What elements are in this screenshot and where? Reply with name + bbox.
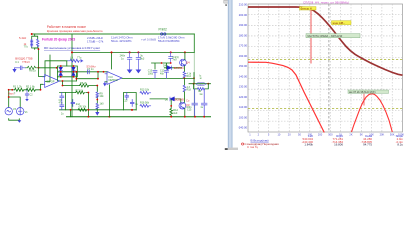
feedback loop under C7	[76, 72, 98, 81]
svg-text:775mV: 775mV	[22, 61, 30, 64]
svg-text:0R 10k: 0R 10k	[79, 106, 87, 109]
peak cursor tick red	[363, 94, 365, 106]
svg-text:180.00: 180.00	[239, 33, 248, 37]
ground arrow R10	[95, 112, 99, 116]
label box yellow 2	[332, 21, 352, 25]
svg-text:5K: 5K	[360, 132, 363, 136]
svg-text:Вых?: Вых?	[8, 92, 16, 96]
top mid bus wire	[72, 51, 194, 53]
output probe ellipse	[196, 82, 206, 85]
transistor Q3	[179, 102, 186, 109]
cap C2 to ground	[25, 90, 29, 99]
gain curve dark red	[248, 7, 403, 75]
svg-text:ЧАСТОТА СРЕЗА − 847Hz/10: ЧАСТОТА СРЕЗА − 847Hz/10	[307, 34, 343, 38]
svg-text:R7 10k: R7 10k	[76, 89, 84, 92]
svg-text:FortuВ 20 февр 2023: FortuВ 20 февр 2023	[42, 37, 75, 41]
resistor R18 vertical	[183, 78, 185, 85]
horizontal gridlines	[248, 14, 403, 16]
svg-text:BC850C: BC850C	[174, 66, 185, 70]
svg-text:20K: 20K	[380, 132, 385, 136]
svg-text:Сu: Сu	[186, 99, 190, 103]
input ground	[13, 68, 16, 72]
load loop with resistor	[194, 84, 209, 89]
resistor R13	[140, 91, 151, 107]
svg-text:Output: Output	[197, 83, 204, 86]
svg-text:100u: 100u	[148, 72, 154, 75]
Q3 emitter to bus	[184, 109, 186, 117]
svg-text:Фильтр Н: Фильтр Н	[300, 6, 311, 10]
svg-text:R18: R18	[187, 88, 192, 91]
resistor R12 vertical	[170, 100, 173, 117]
svg-text:R6 2k: R6 2k	[80, 81, 87, 85]
wire row y63	[152, 63, 171, 69]
svg-text:R#: выполнение установка в 0.8: R#: выполнение установка в 0.83 Гц вкл	[44, 46, 100, 50]
resistor R9	[96, 92, 99, 98]
IC3 ground stem to bus	[108, 85, 110, 117]
clipper to output vertical	[57, 77, 59, 81]
Q3 / D6 row	[150, 99, 181, 104]
toolbar button	[224, 0, 228, 3]
L1 R5 parallel pair	[32, 34, 39, 68]
diode grid wires	[58, 66, 78, 77]
readout columns	[302, 134, 404, 146]
node top rail left end	[31, 33, 33, 35]
svg-text:16.806: 16.806	[334, 143, 343, 147]
wire left of diode grid	[45, 61, 67, 77]
svg-text:77u: 77u	[77, 56, 82, 60]
cap C5 to ground	[127, 52, 132, 72]
ground arrow IC3 plus input	[105, 81, 107, 83]
node dot right	[56, 67, 58, 69]
inductor L1	[31, 39, 33, 47]
wire vertical to opamp plus	[39, 68, 45, 77]
diode D1	[59, 67, 63, 70]
svg-text:500: 500	[328, 132, 333, 136]
cap C11	[71, 100, 75, 107]
svg-text:120.00: 120.00	[239, 95, 248, 99]
load resistor R19	[198, 88, 205, 91]
svg-text:IC2 OP: IC2 OP	[46, 79, 55, 83]
svg-text:R8 1k: R8 1k	[29, 70, 36, 73]
svg-text:R14: R14	[187, 75, 192, 78]
svg-text:5.4Hz: 5.4Hz	[19, 36, 27, 40]
svg-text:Print2: Print2	[159, 28, 168, 32]
svg-text:8.2u: 8.2u	[397, 143, 403, 147]
svg-text:175dB − 07k: 175dB − 07k	[87, 40, 104, 44]
svg-text:170.00: 170.00	[239, 44, 248, 48]
connector symbol on top rail	[161, 33, 167, 35]
svg-text:С так Гц: С так Гц	[247, 145, 258, 149]
svg-text:140.00: 140.00	[239, 74, 248, 78]
header blue text cluster1	[87, 36, 104, 43]
R18 bottom to Q3 collector	[183, 92, 185, 103]
svg-text:160.00: 160.00	[239, 54, 248, 58]
y axis labels	[238, 3, 248, 130]
svg-text:зона 1dB−: зона 1dB−	[332, 21, 345, 25]
svg-text:BC856C: BC856C	[175, 97, 186, 101]
svg-text:R16 56k: R16 56k	[140, 102, 150, 105]
diode D4	[167, 66, 171, 70]
svg-text:7n9: 7n9	[172, 59, 177, 62]
label box green lower	[348, 90, 389, 93]
right RC sub-block of IC3	[124, 93, 137, 111]
mid vertical bus R9/R10	[96, 86, 98, 112]
resistor R10	[96, 103, 99, 109]
svg-text:R13 10k: R13 10k	[140, 89, 150, 92]
right rail	[193, 34, 195, 52]
cap C7 on wire	[88, 70, 90, 74]
svg-text:-240.00: -240.00	[238, 126, 248, 130]
cap C4 on vertical from bus	[169, 52, 173, 63]
node dot input	[38, 67, 40, 69]
left rail	[71, 34, 73, 117]
svg-text:190.00: 190.00	[239, 23, 248, 27]
svg-text:1м: 1м	[199, 93, 202, 96]
diode D2	[72, 67, 76, 70]
diode grid dots	[60, 65, 75, 78]
svg-text:ВХОД/0.775В: ВХОД/0.775В	[15, 56, 32, 60]
source network: wire	[9, 84, 43, 120]
output curve bright red left	[248, 62, 324, 132]
caps C8 column	[60, 93, 64, 110]
svg-text:40n: 40n	[160, 72, 165, 75]
plot frame	[248, 4, 403, 132]
svg-text:2K: 2K	[349, 132, 352, 136]
svg-text:77u: 77u	[24, 45, 29, 48]
opamp2 output wire	[122, 77, 194, 79]
resistor R11 on bottom wire	[78, 108, 87, 111]
wire feedback vertical	[45, 55, 50, 82]
svg-text:C13: C13	[123, 100, 128, 103]
cap C1	[14, 66, 25, 70]
cursor line red vertical	[310, 10, 312, 64]
resistor R8	[26, 66, 39, 69]
diode grid D1-D4	[59, 66, 75, 77]
diode D5	[72, 73, 76, 76]
diode D4 row	[164, 67, 181, 69]
opamp1 output wiring	[60, 81, 80, 86]
svg-text:50uA .42%/18%: 50uA .42%/18%	[111, 39, 132, 43]
diode D3	[59, 73, 63, 76]
output hump bright red	[352, 94, 393, 132]
source V3	[5, 108, 12, 115]
svg-text:50K: 50K	[390, 132, 395, 136]
svg-text:200.00: 200.00	[239, 13, 248, 17]
svg-text:Красная проверка навесная резь: Красная проверка навесная резьбовито	[47, 29, 103, 33]
svg-text:NE5532: NE5532	[109, 78, 119, 82]
svg-text:4u3: 4u3	[140, 57, 145, 60]
resistor R1	[15, 88, 27, 91]
op-amp IC2	[43, 75, 60, 88]
svg-text:110.00: 110.00	[239, 105, 248, 109]
left RC sub-block	[60, 93, 137, 117]
vertical gridlines	[257, 4, 259, 132]
svg-text:R2 1.6k: R2 1.6k	[26, 86, 35, 89]
source V1	[17, 108, 24, 115]
zero line bottom green dashed	[248, 108, 403, 110]
cap C10	[153, 70, 157, 78]
zero line top green dashed	[248, 59, 403, 61]
cap C12	[165, 70, 169, 78]
resistor R14 vertical	[183, 66, 185, 72]
label box green upper	[306, 34, 360, 38]
resistor R6	[80, 84, 98, 87]
svg-text:150.00: 150.00	[239, 64, 248, 68]
resistor R2	[26, 88, 39, 91]
svg-text:0.1: 0.1	[15, 61, 19, 64]
output node wire	[189, 83, 211, 85]
cap C6 to ground	[136, 52, 141, 72]
svg-text:200: 200	[318, 132, 323, 136]
cursor line gray dashed vertical	[328, 4, 330, 132]
scrollbar corner	[228, 148, 238, 150]
svg-text:м: м	[200, 77, 202, 80]
cap C13	[125, 93, 129, 100]
svg-text:94.775: 94.775	[363, 143, 372, 147]
wire diode grid to opamp2	[77, 71, 108, 73]
op-amp IC3	[105, 72, 122, 85]
svg-text:+uA 0.08dB: +uA 0.08dB	[141, 38, 156, 42]
ground sources	[18, 120, 22, 123]
svg-text:С15: С15	[187, 109, 192, 112]
svg-text:130.00: 130.00	[239, 85, 248, 89]
gridlines	[248, 4, 403, 132]
bottom bus wire	[67, 116, 211, 118]
splitter band	[228, 0, 233, 150]
top supply rail	[32, 33, 195, 35]
resistor R7	[76, 91, 85, 94]
svg-text:1k0: 1k0	[173, 112, 178, 115]
svg-text:Q4: Q4	[186, 60, 190, 64]
diode D6	[170, 97, 174, 101]
header blue text cluster4	[158, 36, 185, 43]
svg-text:210.00: 210.00	[239, 3, 248, 7]
potentiometer P1 blue	[67, 59, 83, 62]
header blue text cluster2	[111, 36, 133, 43]
resistor R5	[37, 39, 39, 46]
wire input node to opamp	[39, 67, 57, 69]
svg-text:1.840k: 1.840k	[304, 143, 313, 147]
cap C14	[130, 100, 134, 107]
svg-text:R1 1.2k: R1 1.2k	[13, 86, 22, 89]
svg-text:C7 1n: C7 1n	[87, 68, 94, 71]
svg-text:1k0: 1k0	[100, 103, 105, 106]
x axis labels	[249, 132, 404, 136]
transistor Q4	[180, 59, 187, 66]
node L1R5 bottom	[38, 48, 40, 50]
svg-text:55uK P22/80054: 55uK P22/80054	[158, 39, 180, 43]
probe stem	[193, 73, 195, 84]
svg-text:ам 37.2k 38.6Hz М(Х): ам 37.2k 38.6Hz М(Х)	[349, 90, 376, 94]
label box yellow 1	[300, 7, 317, 10]
svg-text:100.00: 100.00	[239, 115, 248, 119]
